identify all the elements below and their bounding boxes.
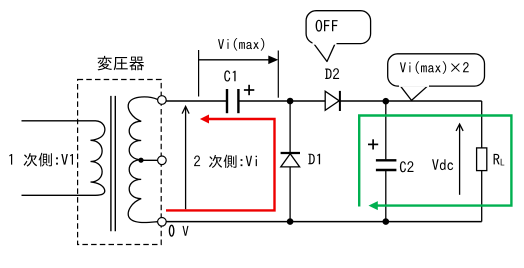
load resistor RL branch wire upper	[481, 101, 483, 148]
diode D2 symbol	[325, 91, 339, 110]
load resistor RL body	[477, 148, 487, 171]
label 0 V (V)	[183, 226, 189, 236]
primary winding L1 with leads	[22, 121, 105, 196]
secondary winding upper half	[128, 97, 157, 160]
label Vi(max)	[218, 38, 264, 51]
label 0 V (zero as plain ellipse)	[169, 225, 173, 236]
dimension arrowhead	[268, 56, 278, 65]
dimension arrow line Vi(max)	[199, 59, 271, 61]
label D2	[325, 68, 339, 79]
label C2	[400, 161, 414, 172]
label 1次側:V1 (primary side voltage)	[9, 153, 73, 167]
label 2次側:Vi (secondary side voltage)	[194, 155, 257, 168]
capacitor C2 branch wire lower	[385, 171, 387, 222]
label Vi(max)×2	[400, 61, 469, 74]
red charge-current loop (arrow)	[166, 119, 275, 210]
C2 polarity + sign	[368, 143, 378, 145]
junction dot top-left (D1/top rail)	[287, 98, 294, 105]
capacitor C2 plates	[376, 159, 397, 161]
junction dot bottom-right (C2/bottom rail)	[383, 218, 390, 225]
terminal (center tap)	[158, 156, 167, 165]
label C1	[224, 70, 235, 81]
label Vdc	[432, 159, 453, 170]
arrow Vi (secondary voltage)	[185, 107, 187, 210]
label RL	[494, 154, 500, 165]
transformer core	[110, 96, 112, 231]
load resistor RL branch wire lower	[481, 171, 483, 222]
capacitor C1 plates	[226, 89, 228, 113]
diode D1 symbol	[281, 154, 300, 167]
transformer dashed enclosure	[78, 80, 162, 245]
junction dot bottom-left (D1/bottom rail)	[287, 218, 294, 225]
terminal (secondary top)	[158, 96, 167, 105]
label RL subscript	[501, 159, 505, 166]
callout bubble Vi(max)×2 (output voltage)	[400, 85, 429, 100]
center-tap wire	[141, 159, 157, 161]
label OFF	[316, 20, 338, 32]
label D1	[308, 154, 320, 165]
diode D1 branch wire	[289, 101, 291, 222]
arrow Vdc (output voltage)	[459, 124, 461, 195]
terminal (secondary bottom, 0V)	[158, 218, 167, 227]
dimension tick right	[277, 51, 279, 98]
wire: bottom rail from 0V terminal to load branch	[166, 221, 482, 223]
callout bubble OFF (D2 state)	[314, 43, 336, 61]
green output-current loop (arrow)	[359, 116, 511, 207]
capacitor C2 branch wire upper	[385, 101, 387, 159]
secondary winding lower half	[128, 160, 157, 223]
label 変圧器 (transformer)	[98, 56, 144, 71]
wire: top rail C1 to load branch	[239, 100, 482, 102]
wire: top rail from top terminal to C1	[166, 100, 226, 102]
center-tap junction dot	[138, 158, 143, 163]
junction dot top-right (C2/top rail)	[383, 98, 390, 105]
dimension tick left	[198, 50, 200, 97]
C1 polarity + sign	[244, 89, 254, 91]
